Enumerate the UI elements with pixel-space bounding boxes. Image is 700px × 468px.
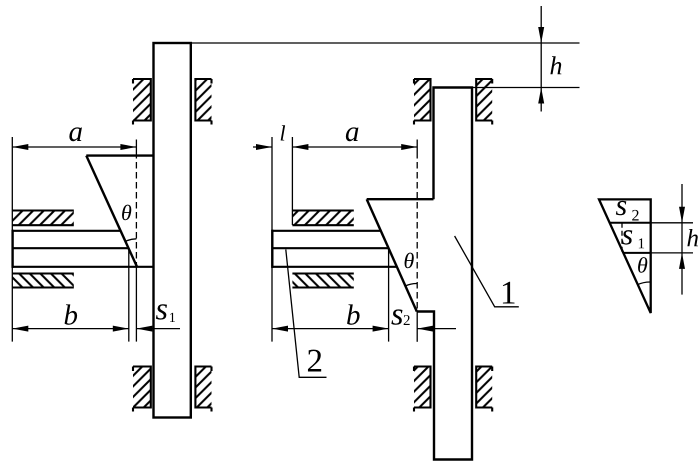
angle theta label (left figure) — [122, 205, 131, 221]
detail h up arrow — [679, 253, 685, 269]
guide-edge extension line for l (middle figure) — [291, 137, 293, 225]
rod left end cap (middle figure) — [271, 230, 273, 268]
rod middle line (middle figure) — [272, 247, 389, 249]
extension line lower (detail) — [651, 252, 693, 254]
angle arc (middle figure) — [405, 283, 417, 285]
top bearing right block (middle figure) — [476, 79, 492, 125]
top reference line from left plate — [191, 42, 580, 44]
extension line at wedge contact (left figure) — [128, 248, 130, 341]
dimension b (middle figure) — [272, 304, 389, 331]
detail h dimension upper segment — [681, 184, 683, 295]
dashed original-position line (left figure) — [135, 140, 137, 342]
dimension b (left figure) — [12, 304, 129, 331]
rod top line (left figure) — [12, 230, 121, 232]
rod middle line (left figure) — [12, 247, 129, 249]
top h label — [550, 56, 561, 74]
wedge 2 oblique edge (left figure) — [86, 156, 137, 267]
top h down arrow — [538, 27, 544, 43]
rod top line (middle figure) — [272, 230, 381, 232]
rod left end cap (left figure) — [11, 230, 13, 268]
bottom bearing left block (middle figure) — [414, 367, 431, 412]
top bearing left block (middle figure) — [414, 79, 431, 125]
left extension line (left figure) — [11, 137, 13, 342]
dimension l (middle figure) — [253, 125, 285, 150]
detail h label — [687, 229, 698, 246]
wedge 2 top edge (left figure) — [86, 154, 153, 156]
angle arc (left figure) — [125, 239, 136, 242]
bottom bearing left block (left figure) — [133, 367, 151, 412]
wedge 2 top edge (middle figure) — [367, 198, 434, 200]
dimension s1 (left figure) — [136, 304, 180, 331]
rod bottom line (left figure) — [12, 266, 154, 268]
rod bottom line (middle figure) — [272, 266, 397, 268]
leader line for part 1 — [455, 236, 519, 307]
detail triangle dashed vertical — [621, 223, 623, 253]
follower plate left figure — [154, 43, 191, 418]
detail h down arrow — [679, 207, 685, 223]
part label 2 — [308, 350, 321, 372]
lower rod guide (left figure) — [12, 274, 74, 288]
dimension a (left figure) — [12, 127, 136, 150]
dimension s2 (middle figure) — [391, 309, 456, 331]
follower plate (middle figure) — [417, 88, 472, 460]
wedge 2 oblique edge (middle figure) — [367, 199, 417, 311]
reference line from middle plate top — [472, 87, 580, 89]
bottom bearing right block (middle figure) — [476, 367, 492, 412]
top h dimension line — [540, 6, 542, 112]
top bearing right block (left figure) — [195, 79, 211, 125]
leader line for part 2 — [286, 250, 327, 378]
top bearing left block (left figure) — [133, 79, 151, 125]
detail theta label — [638, 257, 647, 273]
bottom bearing right block (left figure) — [195, 367, 211, 412]
upper rod guide (middle figure) — [292, 211, 353, 226]
dashed original-position line (middle figure) — [416, 140, 418, 342]
upper rod guide (left figure) — [12, 211, 74, 226]
lower rod guide (middle figure) — [292, 274, 353, 288]
detail triangle outline — [599, 199, 651, 313]
detail triangle upper inner line — [610, 222, 651, 224]
detail s1 label — [622, 230, 644, 248]
extension line upper (detail) — [651, 222, 693, 224]
left extension line (middle figure) — [271, 137, 273, 342]
top h up arrow — [538, 88, 544, 104]
part label 1 — [503, 282, 515, 304]
extension line at wedge contact (middle figure) — [388, 248, 390, 341]
detail triangle lower inner line — [623, 252, 650, 254]
detail s2 label — [616, 201, 639, 221]
angle theta label (middle figure) — [405, 253, 414, 269]
dimension a (middle figure) — [292, 127, 417, 150]
detail angle arc — [637, 282, 650, 285]
